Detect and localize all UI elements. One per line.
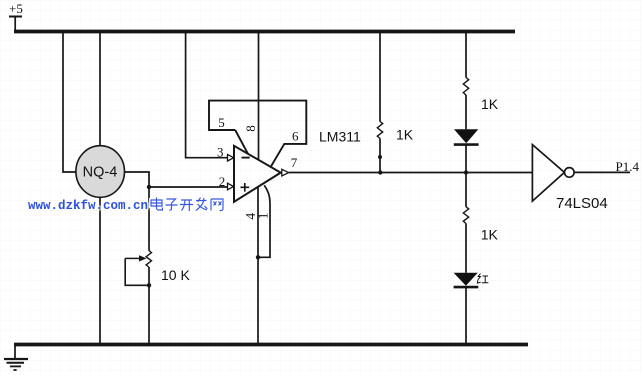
- op-amp U1 LM311: [234, 129, 361, 202]
- wire resistor R4 to LED D2: [465, 224, 467, 273]
- wire inverter output to P1.4: [574, 171, 630, 173]
- resistor R4 1K (bottom LED): [463, 207, 498, 243]
- wire LED D2 cathode to ground bus: [465, 287, 467, 343]
- sensor NQ-4: [76, 146, 125, 198]
- wire LED D1 cathode to output net: [465, 145, 467, 173]
- junction pot wiper bottom: [147, 283, 151, 287]
- wire bus to NQ-4 top: [99, 33, 101, 147]
- watermark 电子开发网: [149, 196, 229, 216]
- svg-text:1: 1: [255, 212, 270, 219]
- wire junction A to pin 2: [149, 186, 227, 188]
- wire NQ-4 bottom to ground bus: [99, 197, 101, 343]
- wire output net to resistor R4: [465, 173, 467, 207]
- svg-text:1K: 1K: [481, 96, 499, 112]
- junction D1/output net: [464, 170, 468, 174]
- wire pin 4 down to ground bus: [257, 188, 259, 344]
- potentiometer RP1 10K: [125, 251, 190, 286]
- wire op-amp output to inverter input: [289, 172, 533, 174]
- wire NQ-4 right to junction A: [124, 172, 149, 187]
- wire pin 8 to bus: [258, 33, 260, 160]
- svg-text:P1.4: P1.4: [616, 159, 640, 174]
- ground bus bottom rail: [14, 343, 528, 347]
- svg-text:7: 7: [291, 155, 298, 170]
- LED D2 (red): [454, 273, 479, 287]
- wire resistor R2 bottom to output net: [379, 139, 381, 173]
- svg-text:3: 3: [217, 145, 224, 160]
- svg-text:1K: 1K: [396, 127, 414, 143]
- watermark www.dzkfw.com.cn: [28, 196, 148, 214]
- svg-text:NQ-4: NQ-4: [83, 165, 118, 181]
- svg-text:74LS04: 74LS04: [556, 195, 608, 212]
- svg-text:LM311: LM311: [319, 129, 361, 145]
- wire bus to resistor R2 top: [379, 33, 381, 122]
- resistor R2 1K (pull-up): [377, 122, 413, 143]
- resistor R3 1K (top LED): [463, 78, 498, 113]
- +5V top rail bus: [14, 30, 515, 34]
- wire bus to pin 3: [186, 33, 228, 158]
- svg-text:10 K: 10 K: [161, 267, 190, 283]
- wire bus to resistor R3 top: [465, 33, 467, 78]
- junction R2/output net: [378, 170, 382, 174]
- svg-text:+5: +5: [9, 1, 23, 16]
- wire bus to NQ-4 left: [63, 33, 76, 172]
- wire pin 1 loop to pin 4 line: [258, 185, 270, 257]
- wire potentiometer bottom to ground bus: [148, 267, 150, 343]
- svg-text:1K: 1K: [481, 227, 499, 243]
- pin 2 arrowhead: [228, 183, 234, 190]
- +5 power port: [9, 1, 23, 30]
- LED D1: [454, 129, 479, 144]
- junction pin1/pin4: [256, 255, 260, 259]
- wire resistor R3 bottom to LED D1: [465, 95, 467, 129]
- inverter 74LS04: [532, 145, 607, 212]
- junction R2 lead dot: [378, 155, 382, 159]
- junction node A (pin2/pot): [147, 185, 151, 189]
- svg-text:6: 6: [292, 129, 299, 144]
- svg-text:2: 2: [219, 174, 226, 189]
- svg-text:8: 8: [243, 125, 258, 132]
- pin 7 output arrowhead: [282, 169, 289, 176]
- op-amp pin5/pin6 balance loop box: [209, 101, 306, 167]
- label red (红) for LED D2: [477, 274, 488, 284]
- ground: [4, 346, 28, 370]
- svg-text:5: 5: [218, 115, 225, 130]
- wire junction A down to potentiometer: [148, 187, 150, 251]
- pin 3 arrowhead: [228, 154, 234, 161]
